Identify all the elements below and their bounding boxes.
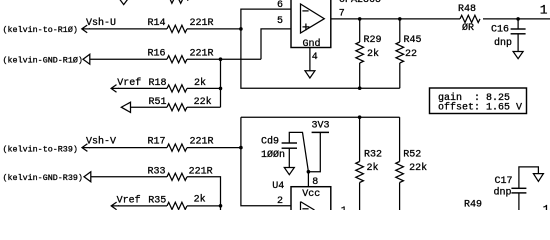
svg-text:2: 2 bbox=[277, 196, 283, 207]
svg-text:R29: R29 bbox=[364, 35, 382, 46]
svg-text:ØR: ØR bbox=[462, 22, 474, 34]
junction dot pin 8 node bbox=[307, 170, 311, 174]
wire Cd9 top to pin 8 node (with diagonal) bbox=[289, 132, 308, 171]
resistor R29 bbox=[356, 19, 382, 88]
svg-text:R16: R16 bbox=[148, 49, 166, 60]
svg-text:1: 1 bbox=[540, 2, 548, 17]
gain/offset note box bbox=[430, 88, 527, 114]
svg-text:221R: 221R bbox=[190, 18, 214, 29]
capacitor Cd9 bbox=[261, 136, 297, 162]
ground symbol pin 4 bbox=[305, 71, 315, 78]
svg-text:R52: R52 bbox=[403, 150, 421, 161]
svg-text:R51: R51 bbox=[149, 97, 167, 108]
op-amp U4 triangle (partial) bbox=[301, 202, 315, 210]
svg-text:Vcc: Vcc bbox=[302, 189, 320, 200]
junction dot R35 node bbox=[219, 204, 223, 208]
ground symbol C17 bbox=[533, 174, 543, 182]
svg-text:1Ø: 1Ø bbox=[543, 204, 550, 210]
svg-text:(kelvin-GND-R39): (kelvin-GND-R39) bbox=[3, 173, 83, 183]
resistor R48 bbox=[458, 4, 480, 34]
svg-text:R18: R18 bbox=[149, 78, 167, 89]
wire divider column bbox=[220, 59, 222, 107]
resistor R35 bbox=[148, 193, 205, 209]
svg-text:C16: C16 bbox=[491, 25, 509, 36]
net triangle (row 4, 22k) bbox=[121, 102, 130, 112]
wire riser to pin 5 bbox=[261, 29, 291, 59]
resistor R17 bbox=[148, 137, 214, 152]
wire R35 to node bbox=[187, 205, 221, 207]
junction dot R14/inverting node bbox=[239, 27, 243, 31]
wire R14 to node bbox=[187, 28, 241, 30]
pin 4 wire bbox=[309, 48, 311, 71]
svg-text:OPA2365: OPA2365 bbox=[339, 0, 381, 6]
net arrow Vref bbox=[111, 85, 119, 93]
output wire pin 7 bbox=[331, 18, 460, 20]
wire node to pin 6 bbox=[241, 9, 291, 29]
net arrow Vsh-V bbox=[82, 144, 90, 152]
junction dot R29 bottom bbox=[358, 86, 362, 90]
net arrow Vsh-U bbox=[82, 25, 90, 33]
net triangle kelvin-GND-R39 bbox=[84, 172, 91, 182]
svg-text:3V3: 3V3 bbox=[312, 120, 330, 131]
wire Vref to R35 bbox=[118, 205, 167, 207]
svg-text:6: 6 bbox=[277, 0, 283, 11]
svg-text:Gnd: Gnd bbox=[303, 38, 321, 50]
resistor R14 bbox=[148, 18, 214, 33]
wire column stub down bbox=[220, 206, 222, 210]
resistor R32 bbox=[356, 117, 382, 210]
svg-text:R45: R45 bbox=[404, 35, 422, 46]
svg-text:Vsh-V: Vsh-V bbox=[86, 136, 116, 148]
op-amp U4 box bbox=[291, 187, 331, 217]
plus input mark bbox=[303, 24, 310, 31]
cut-off arrow remnant (top edge) bbox=[120, 0, 128, 5]
junction dot C16 tap bbox=[516, 17, 520, 21]
minus input mark U4 bbox=[302, 208, 308, 210]
svg-text:R32: R32 bbox=[364, 150, 382, 161]
svg-text:(kelvin-to-R39): (kelvin-to-R39) bbox=[3, 144, 78, 154]
minus input mark bbox=[302, 10, 308, 12]
resistor R33 bbox=[148, 167, 213, 181]
junction dot R29 top bbox=[358, 17, 362, 21]
wire to R16 bbox=[90, 58, 167, 60]
svg-text:R33: R33 bbox=[148, 167, 166, 178]
svg-text:1: 1 bbox=[341, 206, 347, 210]
svg-text:dnp: dnp bbox=[494, 186, 512, 198]
svg-text:Vsh-U: Vsh-U bbox=[86, 17, 116, 29]
feedback rail block 2 bbox=[241, 116, 400, 118]
ground symbol Cd9 bbox=[284, 168, 294, 175]
supply 3V3 bbox=[308, 120, 329, 171]
pin 8 wire bbox=[307, 172, 309, 187]
cut-off resistor remnant (top edge) bbox=[169, 0, 188, 3]
svg-text:7: 7 bbox=[339, 9, 345, 20]
wire R48 to edge bbox=[483, 18, 550, 20]
wire Vref to R18 bbox=[118, 87, 167, 89]
svg-text:5: 5 bbox=[277, 16, 283, 27]
wire R51 to column bbox=[187, 106, 221, 108]
svg-text:R17: R17 bbox=[148, 137, 166, 148]
svg-text:2k: 2k bbox=[194, 193, 206, 205]
resistor R52 bbox=[396, 117, 427, 210]
svg-text:2k: 2k bbox=[367, 48, 379, 60]
junction dot R17 node bbox=[239, 146, 243, 150]
svg-text:1ØØn: 1ØØn bbox=[261, 149, 285, 161]
wire node down to feedback rail bbox=[241, 29, 400, 88]
wire to R33 bbox=[91, 176, 167, 178]
resistor R51 bbox=[149, 96, 212, 111]
svg-text:R48: R48 bbox=[458, 4, 476, 15]
svg-text:22k: 22k bbox=[194, 96, 212, 108]
wire R16 to riser bbox=[187, 58, 261, 60]
net arrow Vref bottom bbox=[111, 202, 119, 210]
svg-text:221R: 221R bbox=[190, 137, 214, 148]
capacitor C16 bbox=[491, 19, 526, 52]
svg-text:C17: C17 bbox=[495, 176, 513, 187]
svg-text:22k: 22k bbox=[409, 162, 427, 174]
wire R33 to column bbox=[187, 177, 221, 206]
svg-text:221R: 221R bbox=[189, 167, 213, 178]
svg-text:U4: U4 bbox=[272, 181, 284, 192]
svg-text:R35: R35 bbox=[148, 196, 166, 207]
wire Cd9 bottom to ground bbox=[288, 148, 290, 167]
svg-text:2k: 2k bbox=[194, 77, 206, 89]
resistor R45 bbox=[396, 19, 422, 88]
junction dot R18 bbox=[219, 87, 223, 91]
wire R17 to node bbox=[187, 147, 241, 149]
ground symbol C16 bbox=[513, 52, 523, 59]
capacitor C17 bbox=[494, 167, 539, 210]
junction dot R45 top bbox=[398, 17, 402, 21]
svg-text:R14: R14 bbox=[148, 18, 166, 29]
junction dot divider node on R16 line bbox=[219, 57, 223, 61]
svg-text:Cd9: Cd9 bbox=[261, 136, 279, 148]
net triangle kelvin-GND-R10 bbox=[83, 54, 90, 64]
junction dot R32 top bbox=[358, 115, 362, 119]
op-amp U?A box bbox=[291, 0, 331, 48]
wire Vsh-V to R17 bbox=[89, 147, 167, 149]
svg-text:(kelvin-to-R1Ø): (kelvin-to-R1Ø) bbox=[3, 25, 78, 35]
svg-text:4: 4 bbox=[312, 52, 318, 63]
svg-text:2k: 2k bbox=[367, 162, 379, 174]
svg-text:offset: 1.65 V: offset: 1.65 V bbox=[438, 102, 522, 114]
svg-text:221R: 221R bbox=[190, 49, 214, 60]
svg-text:(kelvin-GND-R1Ø): (kelvin-GND-R1Ø) bbox=[3, 55, 83, 65]
resistor R18 bbox=[149, 77, 207, 92]
svg-text:dnp: dnp bbox=[494, 37, 512, 49]
resistor R16 bbox=[148, 49, 214, 63]
svg-text:22: 22 bbox=[405, 49, 417, 60]
svg-text:R49: R49 bbox=[464, 200, 482, 210]
op-amp U?A triangle bbox=[301, 4, 325, 33]
wire R18 to divider node bbox=[187, 87, 221, 89]
wire to R51 bbox=[131, 106, 168, 108]
svg-text:Vref: Vref bbox=[117, 77, 141, 89]
svg-text:Vref: Vref bbox=[117, 195, 141, 207]
wire node column to pin 2 bbox=[241, 117, 291, 206]
wire Vsh-U to R14 bbox=[89, 28, 167, 30]
